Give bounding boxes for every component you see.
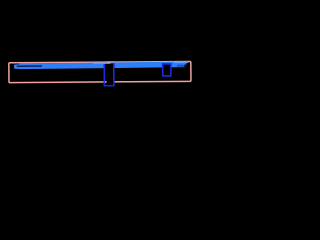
pad P2 (short blue rectangle) [163, 64, 171, 76]
pad P1 (tall rectangle through outline, open top) [104, 63, 114, 85]
wire top highlight right end [174, 62, 188, 63]
component outline (courtyard) box [9, 62, 191, 83]
wire right extension (middle step) [184, 62, 187, 65]
light crossing segment on outline above pad P1 [107, 61, 114, 62]
pad P1 interior fill [104, 63, 115, 86]
wire right extension (top step) [186, 62, 188, 64]
wire left end cap [14, 64, 44, 69]
dark core stripe in wire left section [17, 65, 42, 67]
wire (bus) body [19, 62, 184, 70]
wire top highlight over pad P1 [93, 62, 111, 64]
wire lower band darker right tip [177, 65, 184, 68]
outline stub inside pad P1 [105, 81, 107, 83]
